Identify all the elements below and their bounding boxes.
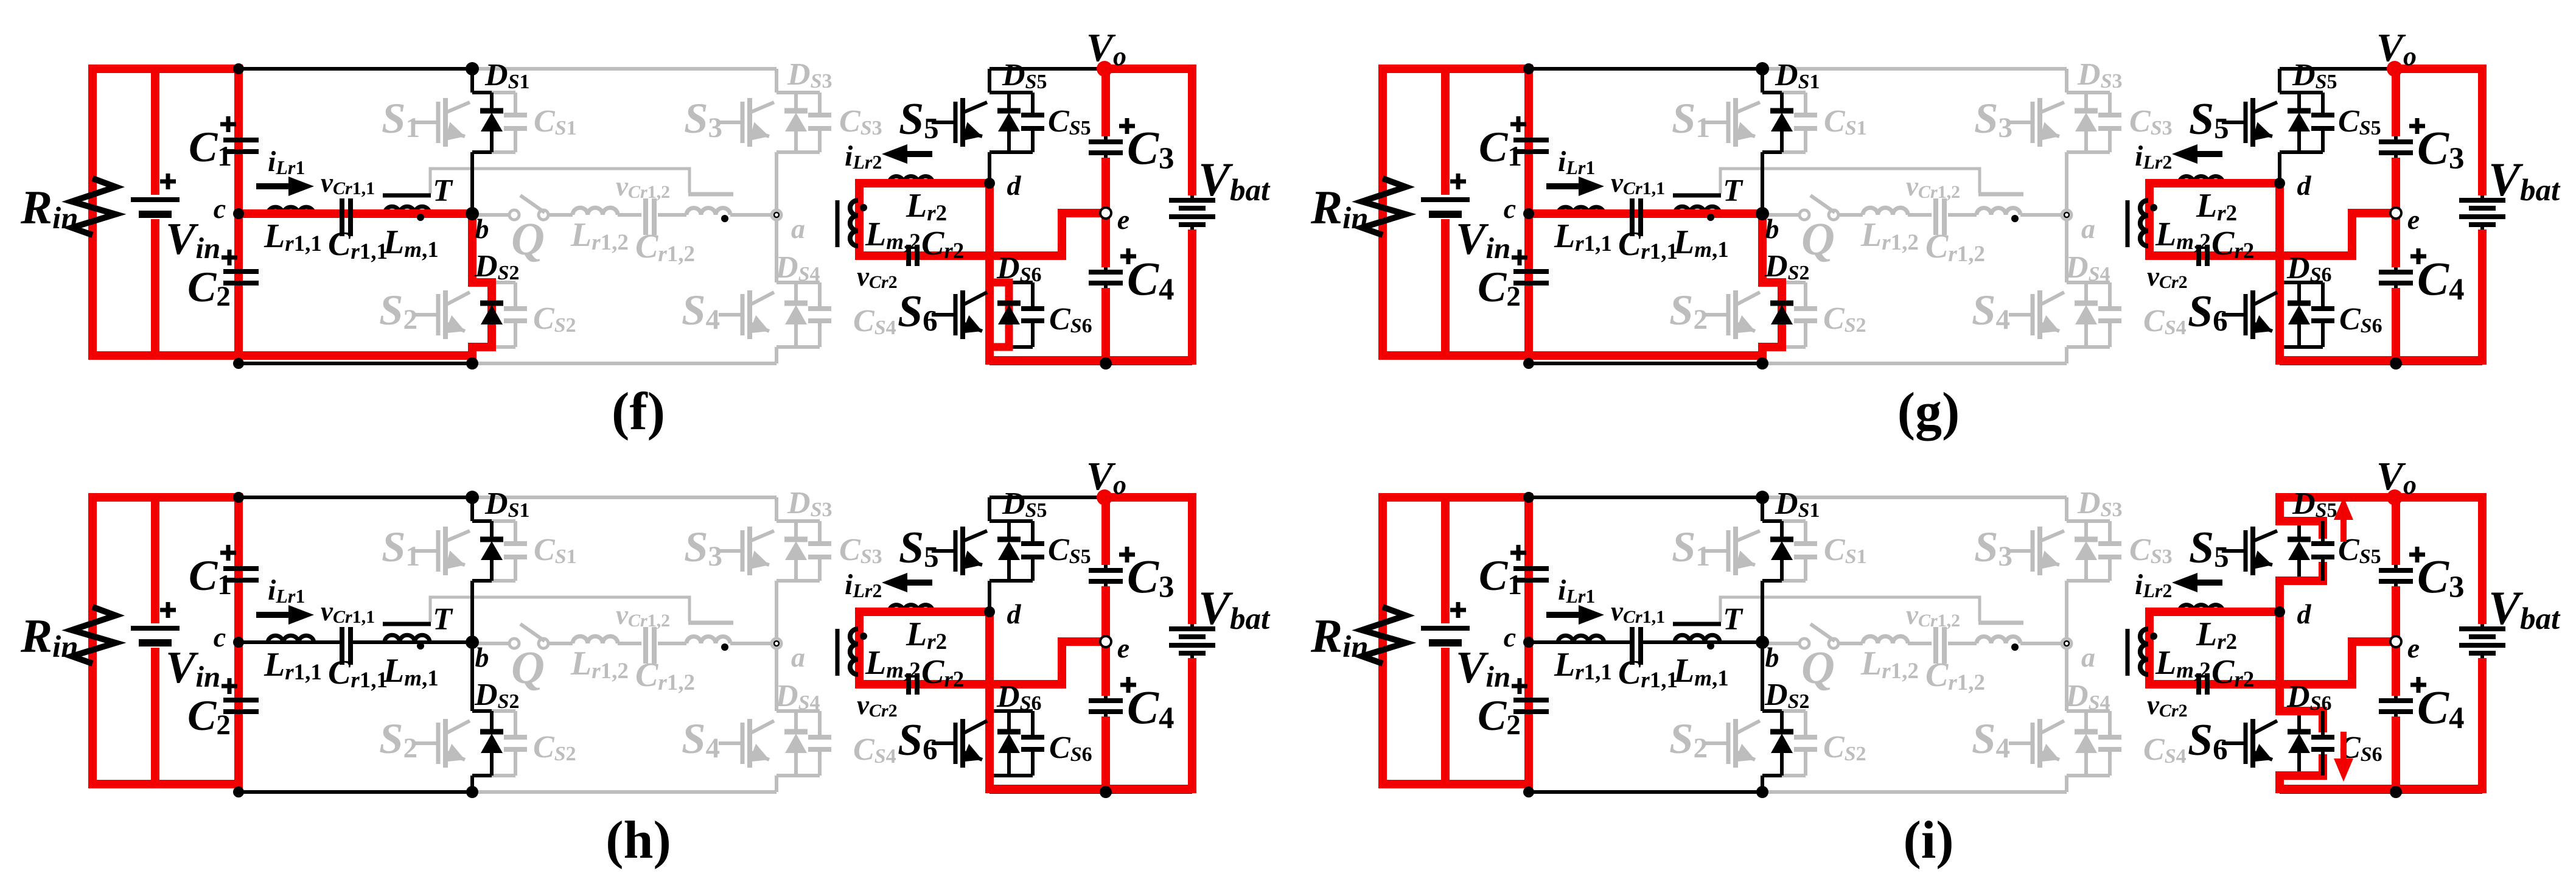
capacitor C_r2 (i)	[2196, 673, 2201, 695]
svg-text:T: T	[1723, 602, 1744, 637]
node top S1 (f)	[466, 62, 479, 75]
resistor R_in (h)	[72, 607, 116, 664]
red path R_in loop (h)	[88, 493, 97, 788]
cell wires S5 (f)	[988, 69, 991, 93]
red path bottom rail right (f)	[985, 356, 1196, 365]
capacitor C_S5 (i)	[2321, 521, 2325, 544]
red path output column (f)	[1101, 65, 1110, 136]
node c (f)	[233, 208, 244, 219]
capacitor C_S6 (f)	[1031, 282, 1035, 309]
wire L_r2 line (i)	[2149, 610, 2280, 614]
red path C_S6 discharge (i)	[2275, 707, 2327, 715]
capacitor C_r1,1 (h)	[340, 627, 344, 665]
inductor L_r1,1 (i)	[1558, 636, 1604, 642]
svg-text:e: e	[2407, 204, 2420, 235]
capacitor C_S4 (g)	[2108, 282, 2112, 309]
transistor S5 (f)	[932, 121, 955, 124]
transistor S5 (g)	[2222, 121, 2246, 124]
wire bottom rail right (i)	[2280, 790, 2482, 794]
node d (i)	[2274, 606, 2285, 617]
svg-text:Q: Q	[1801, 214, 1835, 265]
wire top rail left (f)	[92, 67, 472, 71]
battery V_bat (g)	[2459, 198, 2505, 203]
transistor S2 (i)	[1705, 741, 1728, 745]
wire e step (f)	[1062, 213, 1106, 256]
wire bottom rail right (h)	[990, 790, 1192, 794]
wire L_m2 vertical (f)	[857, 183, 861, 256]
diode D_S1 (h)	[480, 537, 503, 542]
red path top rail left (i)	[1383, 493, 1533, 502]
inductor L_r1,1 (f)	[268, 207, 314, 214]
capacitor C_r2 (g)	[2196, 245, 2201, 266]
diode D_S1 (f)	[480, 108, 503, 114]
wire input column C1 C2 (g)	[1527, 69, 1531, 140]
wire top rail left (g)	[1383, 67, 1762, 71]
transistor S3 (h)	[719, 549, 742, 553]
node c (g)	[1523, 208, 1534, 219]
red path output column (i)	[2392, 493, 2400, 565]
inductor L_m,1 (i)	[1675, 635, 1720, 642]
wire gray bottom rail (i)	[1762, 790, 2067, 794]
transistor S5 (i)	[2222, 549, 2246, 553]
red path top rail left (g)	[1383, 65, 1533, 73]
capacitor C_S1 (h)	[492, 519, 515, 523]
transformer bar T (i)	[1673, 622, 1721, 626]
node b (g)	[1756, 207, 1769, 220]
transformer link wire gray (f)	[430, 169, 689, 194]
transistor S4 (g)	[2009, 313, 2033, 317]
svg-text:Q: Q	[511, 214, 545, 265]
switch Q (i)	[1762, 642, 1799, 645]
red path input column (h)	[234, 497, 243, 788]
wire tank line c-b (h)	[239, 640, 341, 644]
wire bottom rail left (f)	[239, 362, 472, 365]
inductor L_r2 (h)	[889, 605, 933, 612]
node e (f)	[1100, 208, 1111, 219]
polarity dot winding 2 (g)	[2011, 215, 2019, 222]
svg-text:(f): (f)	[612, 382, 665, 441]
diode D_S6 (f)	[997, 301, 1021, 306]
node e (i)	[2390, 636, 2401, 647]
wire gray bottom rail (f)	[472, 362, 777, 365]
transistor S4 (h)	[719, 741, 742, 745]
polarity dot winding 2 (i)	[2011, 643, 2019, 651]
capacitor C3 (f)	[1089, 139, 1123, 144]
diode D_S2 (h)	[480, 729, 503, 735]
red path R_in loop (i)	[1378, 493, 1387, 788]
capacitor C4 (f)	[1089, 270, 1123, 275]
cell wires S5 (h)	[988, 497, 991, 521]
diode D_S2 (g)	[1770, 301, 1793, 306]
wire gray bottom rail (h)	[472, 790, 777, 794]
polarity dot winding 2 (h)	[721, 643, 728, 651]
svg-text:c: c	[1504, 622, 1516, 653]
transformer bar T (f)	[383, 194, 431, 198]
red path bottom rail right (i)	[2275, 785, 2487, 793]
capacitor C2 (i)	[1513, 698, 1549, 703]
node b (h)	[466, 636, 479, 649]
node c (i)	[1523, 637, 1534, 648]
capacitor C2 (h)	[223, 698, 259, 703]
node V_o red (i)	[2387, 489, 2403, 505]
red path secondary tank loop (i)	[2149, 612, 2396, 684]
node b (i)	[1756, 636, 1769, 649]
svg-text:e: e	[1117, 204, 1129, 235]
diode D_S1 (g)	[1770, 108, 1793, 114]
diode D_S5 (i)	[2288, 537, 2311, 542]
svg-text:c: c	[214, 193, 226, 224]
cell wires S3 (g)	[2065, 91, 2068, 93]
cell wires S5 (g)	[2278, 69, 2281, 93]
node top left (i)	[1523, 492, 1534, 503]
svg-text:d: d	[2297, 170, 2312, 201]
capacitor C_S3 (g)	[2108, 93, 2112, 115]
node bottom left (f)	[233, 358, 244, 369]
cell wires S2 D_S2 (g)	[1780, 282, 1784, 303]
svg-text:a: a	[2081, 642, 2095, 673]
wire top rail right (g)	[2280, 67, 2482, 71]
transformer L_m,2 (f)	[850, 200, 858, 246]
inductor L_r2 (g)	[2179, 177, 2223, 183]
red path input column (g)	[1524, 69, 1533, 360]
red path output column (h)	[1101, 493, 1110, 565]
node b (f)	[466, 207, 479, 220]
svg-text:c: c	[1504, 193, 1516, 224]
capacitor C_S2 (g)	[1782, 281, 1806, 284]
transformer bar T (h)	[383, 622, 431, 626]
red path V_in column (g)	[1441, 69, 1450, 195]
capacitor C_r1,1 (i)	[1630, 627, 1635, 665]
transformer bar winding 2 (f)	[688, 192, 733, 197]
inductor winding 2 L_r1,2b (f)	[686, 208, 730, 215]
transistor S1 (g)	[1705, 121, 1728, 124]
switch Q (h)	[472, 642, 509, 645]
source V_in (i)	[1421, 626, 1470, 631]
cell wires S3 (i)	[2065, 520, 2068, 521]
red path bottom rail left short (h)	[88, 780, 243, 788]
cell wires S3 (h)	[775, 520, 778, 521]
cell wires S4 (f)	[775, 215, 778, 282]
transformer link wire gray (g)	[1720, 169, 1980, 194]
cell wires S6 (h)	[988, 612, 991, 711]
wire top rail right (f)	[990, 67, 1192, 71]
transistor S3 (g)	[2009, 121, 2033, 124]
node e (h)	[1100, 636, 1111, 647]
capacitor C1 (f)	[223, 138, 259, 142]
node d (f)	[984, 178, 995, 189]
wire gray top rail b-to-S3 (i)	[1762, 496, 2067, 499]
transformer bar winding 2 (g)	[1978, 192, 2023, 197]
cell wires S2 D_S2 (h)	[490, 711, 494, 732]
red path V_bat loop (g)	[2396, 65, 2487, 73]
capacitor C_S2 (f)	[492, 281, 515, 284]
node bottom left (i)	[1523, 787, 1534, 797]
red path S6 leg (f)	[985, 183, 994, 365]
cell wires S3 (f)	[775, 91, 778, 93]
resistor R_in (i)	[1362, 607, 1406, 664]
capacitor C_S5 (g)	[2321, 93, 2325, 115]
diode D_S5 (g)	[2288, 108, 2311, 114]
capacitor C1 (g)	[1513, 138, 1549, 142]
node a (f)	[772, 210, 781, 220]
svg-text:T: T	[1723, 173, 1744, 208]
cell wires S6 (g)	[2278, 183, 2281, 282]
svg-text:c: c	[214, 622, 226, 653]
battery V_bat (f)	[1169, 198, 1215, 203]
svg-text:b: b	[475, 213, 489, 244]
battery V_bat (h)	[1169, 626, 1215, 631]
capacitor C_r1,2 (i)	[1933, 627, 1938, 664]
inductor L_m,1 (g)	[1675, 206, 1720, 214]
node bottom left (g)	[1523, 358, 1534, 369]
red path C_S5 charge (i)	[2275, 497, 2284, 521]
capacitor C_S4 (i)	[2108, 711, 2112, 737]
diode D_S4 (f)	[794, 282, 798, 303]
transformer bar T (g)	[1673, 194, 1721, 198]
wire output column C3 C4 (f)	[1104, 69, 1108, 142]
cell wires S1 D_S1 (g)	[1780, 93, 1784, 111]
polarity dot L_m,1 (g)	[1707, 214, 1714, 221]
svg-text:d: d	[1007, 170, 1022, 201]
capacitor C_S4 (f)	[818, 282, 822, 309]
capacitor C4 (g)	[2379, 270, 2413, 275]
capacitor C_S6 (g)	[2321, 282, 2325, 309]
switch Q (f)	[472, 213, 509, 217]
wire output column C3 C4 (h)	[1104, 497, 1108, 570]
cell wires S4 (g)	[2065, 215, 2068, 282]
svg-text:(h): (h)	[606, 811, 671, 870]
node a (h)	[772, 639, 781, 648]
transistor S1 (i)	[1705, 549, 1728, 553]
wire top rail right (i)	[2280, 496, 2482, 499]
arrow i_Lr2 (h)	[907, 580, 932, 586]
battery V_bat (i)	[2459, 626, 2505, 631]
red path output column (g)	[2392, 65, 2400, 136]
red arrow up C_S5 (i)	[2340, 520, 2347, 542]
diode D_S3 (g)	[2084, 93, 2088, 111]
wire bottom rail left (i)	[1529, 790, 1762, 794]
red path secondary tank loop (h)	[859, 612, 1106, 684]
inductor L_m,1 (f)	[385, 206, 430, 214]
svg-text:d: d	[2297, 598, 2312, 629]
transistor S4 (f)	[719, 313, 742, 317]
svg-text:b: b	[1765, 213, 1779, 244]
node d (g)	[2274, 178, 2285, 189]
capacitor C_r1,2 (g)	[1933, 198, 1938, 235]
wire L_r2 line (g)	[2149, 181, 2280, 185]
wire input column C1 C2 (f)	[237, 69, 240, 140]
inductor L_r1,2 (g)	[1863, 208, 1908, 215]
wire V_bat column (f)	[1190, 69, 1194, 200]
node bottom right (i)	[2390, 786, 2402, 798]
wire top rail right (h)	[990, 496, 1192, 499]
svg-text:Q: Q	[511, 642, 545, 693]
transistor S1 (h)	[414, 549, 438, 553]
inductor winding 2 L_r1,2b (i)	[1977, 637, 2020, 643]
wire L_m2 vertical (g)	[2148, 183, 2151, 256]
capacitor C4 (h)	[1089, 698, 1123, 703]
node top S1 (i)	[1756, 491, 1769, 504]
inductor L_r2 (f)	[889, 177, 933, 183]
capacitor C_S1 (i)	[1782, 519, 1806, 523]
capacitor C_S6 (h)	[1031, 711, 1035, 737]
diode D_S6 (g)	[2288, 301, 2311, 306]
wire tank line c-b (g)	[1529, 212, 1632, 215]
arrow i_Lr1 (f)	[256, 183, 288, 189]
capacitor C_r2 (f)	[906, 245, 911, 266]
node bottom S2 (f)	[466, 357, 478, 370]
capacitor C2 (g)	[1513, 269, 1549, 274]
inductor L_r2 (i)	[2179, 605, 2223, 612]
node V_o red (f)	[1097, 61, 1112, 77]
wire gray bottom rail (g)	[1762, 362, 2067, 365]
wire tank line c-b (i)	[1529, 640, 1632, 644]
capacitor C_S1 (f)	[492, 91, 515, 94]
capacitor C1 (i)	[1513, 566, 1549, 571]
red path S6 upper (i)	[2275, 612, 2284, 711]
node d (h)	[984, 606, 995, 617]
node V_o red (h)	[1097, 489, 1112, 505]
diode D_S3 (f)	[794, 93, 798, 111]
wire L_r2 line (f)	[859, 181, 990, 185]
polarity dot L_m,1 (f)	[417, 214, 424, 221]
source V_in (h)	[131, 626, 180, 631]
capacitor C_S2 (i)	[1782, 709, 1806, 713]
capacitor C3 (g)	[2379, 139, 2413, 144]
arrow i_Lr1 (h)	[256, 612, 288, 618]
svg-text:Q: Q	[1801, 642, 1835, 693]
wire gray top rail b-to-S3 (h)	[472, 496, 777, 499]
transistor S6 (i)	[2222, 741, 2246, 745]
svg-text:a: a	[791, 642, 805, 673]
wire L_m2 vertical (h)	[857, 612, 861, 684]
transistor S2 (f)	[414, 313, 438, 317]
wire input column C1 C2 (i)	[1527, 497, 1531, 569]
wire gray top rail b-to-S3 (f)	[472, 67, 777, 71]
capacitor C1 (h)	[223, 566, 259, 571]
node bottom right (h)	[1100, 786, 1112, 798]
capacitor C_S5 (h)	[1031, 521, 1035, 544]
red path D_S6 conduction hook (f)	[990, 282, 1009, 347]
transistor S1 (f)	[414, 121, 438, 124]
red path R_in loop (g)	[1378, 65, 1387, 360]
transistor S2 (h)	[414, 741, 438, 745]
resistor R_in (f)	[72, 178, 116, 235]
inductor L_r1,1 (g)	[1558, 207, 1604, 214]
wire top rail left (h)	[92, 496, 472, 499]
svg-text:b: b	[1765, 642, 1779, 673]
red path bottom rail left short (i)	[1378, 780, 1533, 788]
capacitor C_S3 (f)	[818, 93, 822, 115]
red path secondary tank loop (g)	[2149, 183, 2396, 256]
inductor L_r1,2 (h)	[573, 636, 618, 643]
resistor R_in (g)	[1362, 178, 1406, 235]
red path V_bat loop (f)	[1106, 65, 1196, 73]
node bottom right (f)	[1100, 357, 1112, 370]
transformer bar winding 2 (h)	[688, 621, 733, 625]
svg-text:T: T	[433, 602, 453, 637]
svg-text:e: e	[2407, 632, 2420, 664]
node bottom S2 (i)	[1756, 786, 1768, 798]
diode D_S6 (i)	[2288, 729, 2311, 735]
transformer link wire gray (h)	[430, 597, 689, 622]
arrow i_Lr1 (i)	[1546, 612, 1579, 618]
capacitor C_S3 (i)	[2108, 521, 2112, 544]
capacitor C2 (f)	[223, 269, 259, 274]
cell wires S6 (i)	[2278, 612, 2281, 711]
red path tank c-b (g)	[1529, 209, 1762, 218]
svg-text:d: d	[1007, 598, 1022, 629]
cell wires S2 D_S2 (i)	[1780, 711, 1784, 732]
diode D_S2 (f)	[480, 301, 503, 306]
red path input column (f)	[234, 69, 243, 360]
capacitor C_r1,2 (h)	[643, 627, 648, 664]
capacitor C_S3 (h)	[818, 521, 822, 544]
node top left (g)	[1523, 63, 1534, 74]
red path input column (i)	[1524, 497, 1533, 788]
capacitor C_S5 (f)	[1031, 93, 1035, 115]
node a (i)	[2062, 639, 2072, 648]
red path bottom rail right (g)	[2275, 356, 2487, 365]
capacitor C_S4 (h)	[818, 711, 822, 737]
transistor S2 (g)	[1705, 313, 1728, 317]
wire e step (h)	[1062, 642, 1106, 684]
node bottom left (h)	[233, 787, 244, 797]
svg-text:b: b	[475, 642, 489, 673]
red path top rail to S5 (i)	[2275, 493, 2396, 502]
transformer L_m,2 (g)	[2140, 200, 2148, 246]
red path S6 leg (h)	[985, 612, 994, 793]
svg-text:T: T	[433, 173, 453, 208]
cell wires S2 D_S2 (f)	[490, 282, 494, 303]
inductor L_m,1 (h)	[385, 635, 430, 642]
red path D_S2 conduction (f)	[472, 214, 492, 360]
wire input column C1 C2 (h)	[237, 497, 240, 569]
red arrow down C_S6 (i)	[2340, 732, 2347, 759]
wire e step (i)	[2352, 642, 2396, 684]
source V_in (g)	[1421, 197, 1470, 202]
red path tank c-b (f)	[239, 209, 472, 218]
wire bottom rail right (f)	[990, 362, 1192, 365]
node bottom S2 (h)	[466, 786, 478, 798]
inductor winding 2 L_r1,2b (g)	[1977, 208, 2020, 215]
cell wires S6 (f)	[988, 183, 991, 282]
cell wires S4 (i)	[2065, 643, 2068, 711]
transformer L_m,2 (h)	[850, 629, 858, 675]
wire top rail left (i)	[1383, 496, 1762, 499]
node top left (f)	[233, 63, 244, 74]
cell wires S5 (i)	[2278, 497, 2281, 521]
wire C_r2 line (f)	[859, 254, 908, 258]
transistor S6 (h)	[932, 741, 955, 745]
svg-text:a: a	[791, 213, 805, 244]
capacitor C3 (h)	[1089, 568, 1123, 573]
red path bottom rail right (h)	[985, 785, 1196, 793]
red path top rail left (f)	[92, 65, 243, 73]
transistor S5 (h)	[932, 549, 955, 553]
node V_o red (g)	[2387, 61, 2403, 77]
transistor S6 (f)	[932, 313, 955, 317]
wire L_r2 line (h)	[859, 610, 990, 614]
wire C_r2 line (i)	[2149, 682, 2198, 686]
capacitor C_S2 (h)	[492, 709, 515, 713]
red path V_in column (h)	[151, 497, 159, 623]
diode D_S5 (h)	[997, 537, 1021, 542]
capacitor C_r1,1 (g)	[1630, 198, 1635, 236]
red path bottom rail left full (g)	[1378, 351, 1767, 360]
switch Q (g)	[1762, 213, 1799, 217]
red path secondary tank loop (f)	[859, 183, 1106, 256]
